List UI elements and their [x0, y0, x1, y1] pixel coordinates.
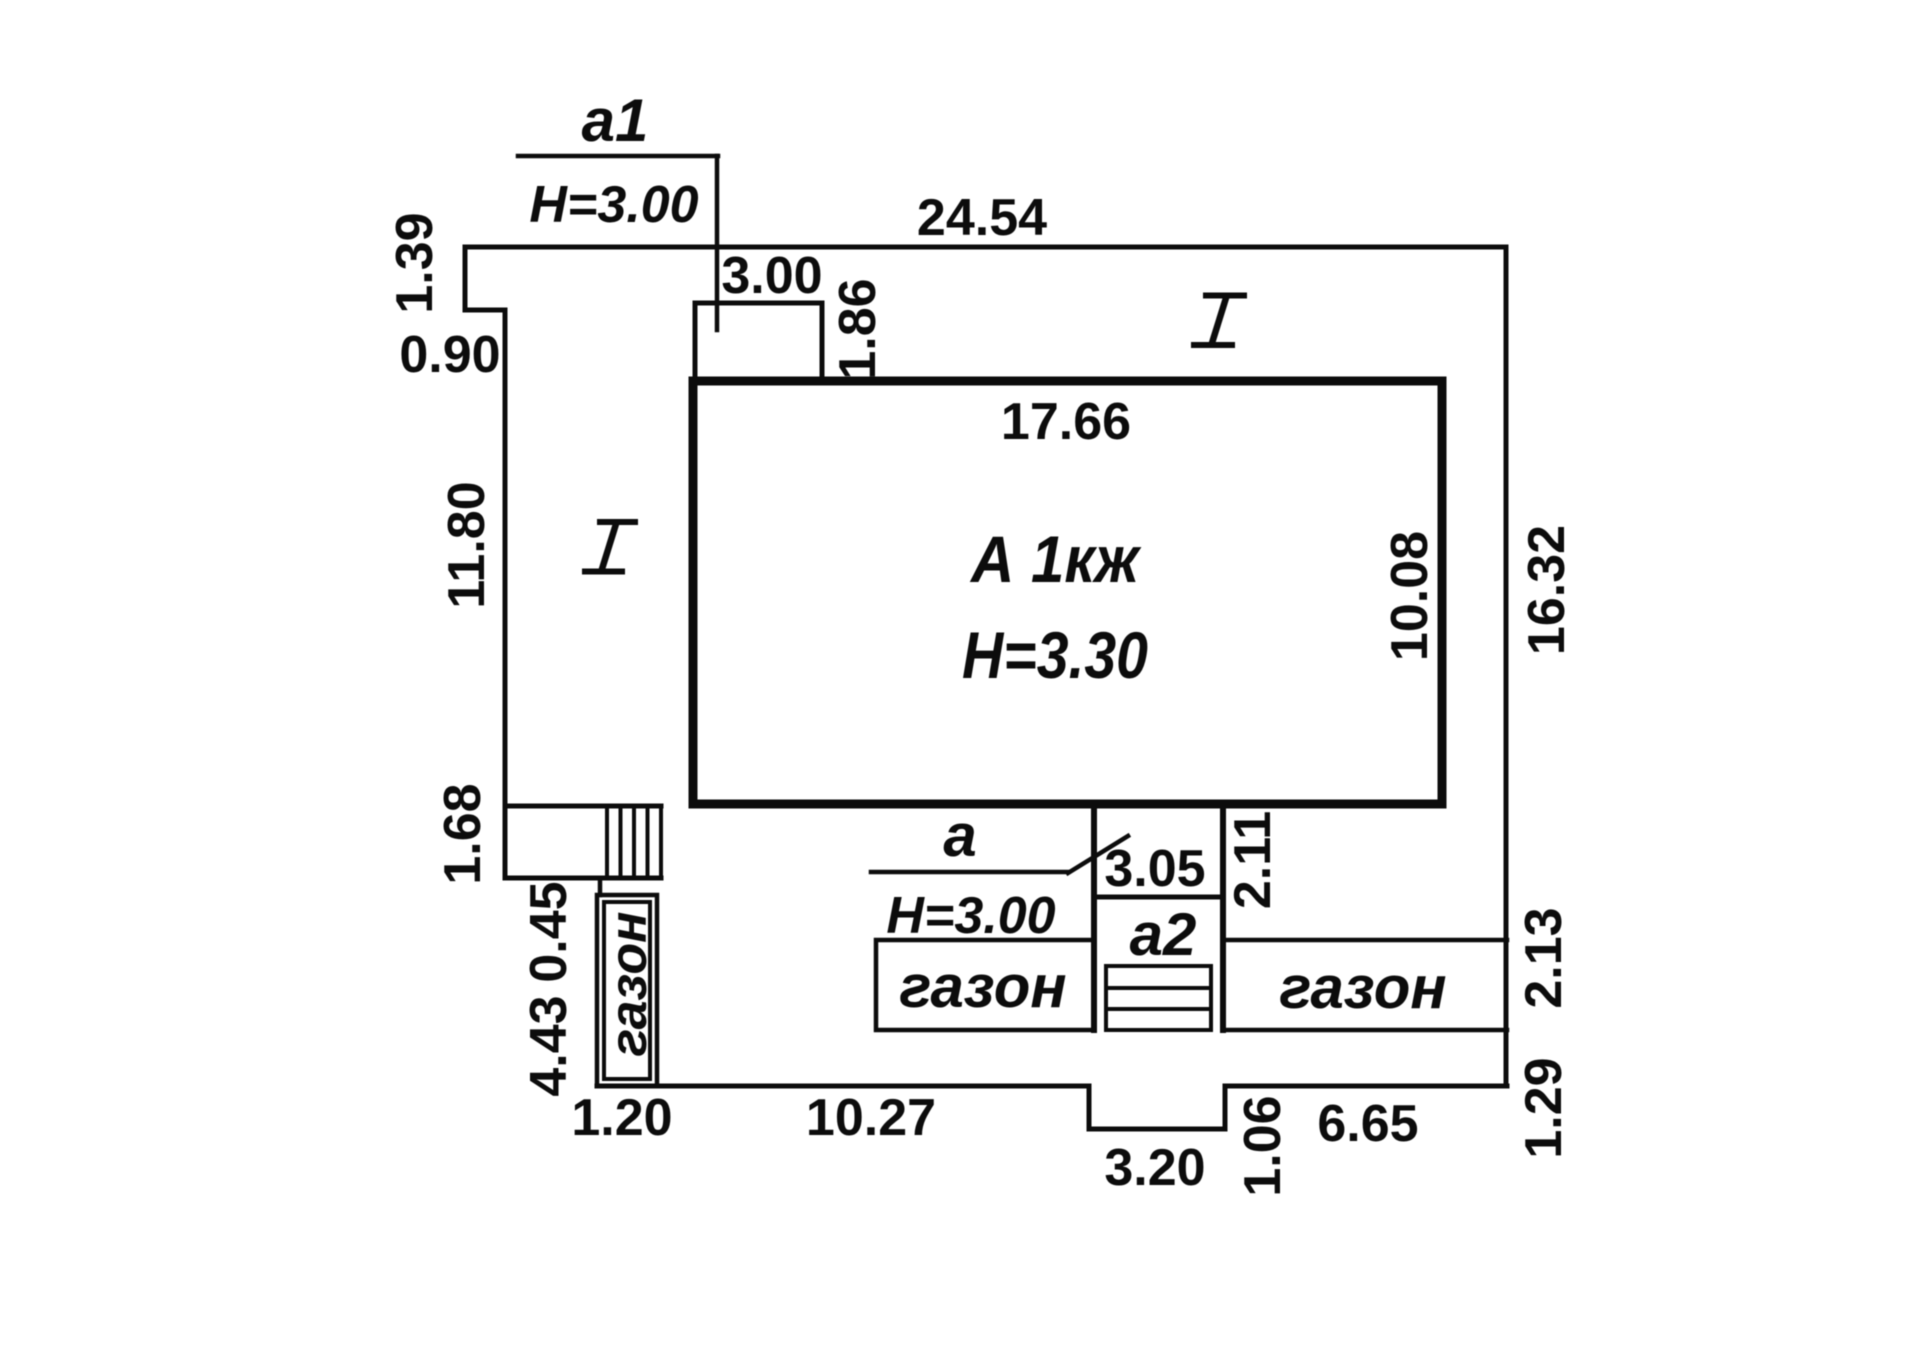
lawn box left [876, 940, 1094, 1030]
svg-text:6.65: 6.65 [1317, 1095, 1418, 1153]
lawn strip outer [597, 895, 657, 1086]
label a underline [871, 870, 1068, 875]
svg-text:0.45: 0.45 [520, 881, 578, 982]
stair hatch left [607, 806, 661, 878]
lawn strip right bottom [1223, 1028, 1507, 1033]
svg-text:3.00: 3.00 [721, 247, 822, 305]
svg-text:газон: газон [899, 953, 1066, 1020]
porch mid line [1094, 895, 1223, 900]
svg-text:а1: а1 [582, 87, 649, 154]
step 1.68 top edge [505, 804, 661, 809]
svg-text:3.20: 3.20 [1104, 1139, 1205, 1197]
connector 0.45 [598, 878, 603, 895]
svg-text:1.29: 1.29 [1515, 1057, 1573, 1158]
svg-text:1.20: 1.20 [571, 1089, 672, 1147]
site boundary step 0.90 [465, 308, 505, 313]
svg-text:24.54: 24.54 [917, 189, 1047, 247]
vestibule 3.00x1.86 [695, 303, 822, 378]
svg-text:Н=3.00: Н=3.00 [529, 176, 698, 234]
svg-text:3.05: 3.05 [1104, 840, 1205, 898]
svg-text:4.43: 4.43 [520, 995, 578, 1096]
site boundary right [1504, 247, 1509, 1086]
svg-text:10.27: 10.27 [806, 1089, 936, 1147]
label a1 leader vertical [715, 156, 720, 330]
svg-text:1.68: 1.68 [434, 783, 492, 884]
svg-text:2.11: 2.11 [1224, 811, 1282, 909]
svg-text:газон: газон [1279, 954, 1446, 1021]
svg-text:а: а [943, 802, 976, 869]
svg-text:11.80: 11.80 [438, 481, 496, 608]
svg-text:16.32: 16.32 [1518, 525, 1576, 655]
svg-text:17.66: 17.66 [1001, 393, 1131, 451]
porch left wall [1091, 806, 1097, 1030]
svg-text:А 1кж: А 1кж [969, 522, 1142, 596]
label a leader slant [1068, 836, 1128, 873]
roman numeral I right [1206, 293, 1244, 299]
svg-text:10.08: 10.08 [1381, 531, 1439, 661]
stairs a2 [1106, 966, 1211, 1030]
building A outline [693, 381, 1442, 804]
site boundary bottom with porch [597, 1086, 1507, 1129]
svg-text:а2: а2 [1130, 901, 1197, 968]
svg-text:газон: газон [600, 911, 658, 1056]
svg-text:1.39: 1.39 [386, 212, 444, 313]
step 1.68 bottom edge [505, 876, 661, 881]
porch right wall [1220, 806, 1226, 1030]
lawn strip inner [604, 902, 650, 1079]
svg-text:1.86: 1.86 [829, 278, 887, 379]
site boundary top [465, 245, 1506, 250]
svg-text:1.06: 1.06 [1234, 1095, 1292, 1196]
svg-text:Н=3.00: Н=3.00 [886, 887, 1055, 945]
svg-text:0.90: 0.90 [399, 326, 500, 384]
svg-text:Н=3.30: Н=3.30 [962, 618, 1148, 692]
site boundary left step 1.39 [463, 247, 468, 310]
svg-text:2.13: 2.13 [1515, 907, 1573, 1008]
label a1 underline [518, 154, 718, 159]
roman numeral I left [600, 519, 635, 525]
site boundary left 11.80 [503, 310, 508, 878]
lawn strip right top [1223, 938, 1507, 943]
